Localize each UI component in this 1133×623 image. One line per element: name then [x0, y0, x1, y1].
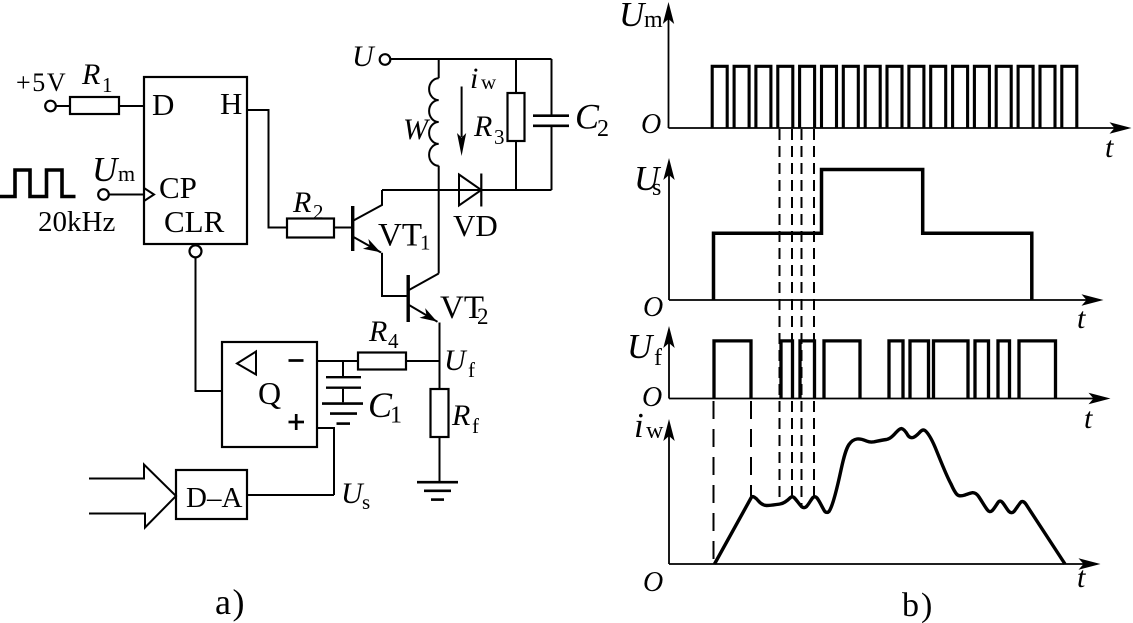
svg-text:b): b) [902, 587, 934, 623]
svg-text:t: t [1084, 402, 1093, 435]
svg-text:f: f [654, 345, 662, 371]
svg-text:R: R [451, 399, 470, 432]
svg-text:w: w [481, 70, 497, 94]
svg-text:W: W [403, 113, 431, 146]
svg-text:R: R [473, 110, 492, 143]
svg-text:i: i [634, 406, 644, 445]
svg-text:m: m [118, 161, 135, 186]
svg-text:t: t [1077, 302, 1086, 335]
svg-text:s: s [362, 490, 370, 514]
svg-text:D: D [152, 87, 174, 122]
svg-text:H: H [220, 86, 242, 121]
svg-text:CLR: CLR [164, 204, 225, 239]
svg-text:1: 1 [102, 73, 113, 97]
svg-text:VT: VT [378, 218, 422, 254]
svg-text:U: U [352, 40, 376, 73]
svg-text:i: i [470, 62, 478, 95]
svg-text:3: 3 [494, 125, 505, 149]
svg-text:m: m [644, 7, 663, 33]
svg-text:20kHz: 20kHz [38, 206, 115, 238]
svg-text:f: f [468, 358, 475, 382]
svg-text:t: t [1105, 131, 1114, 164]
svg-text:2: 2 [597, 116, 609, 142]
svg-text:s: s [652, 175, 661, 201]
svg-text:4: 4 [388, 329, 399, 353]
svg-text:CP: CP [159, 170, 197, 205]
svg-text:f: f [472, 414, 479, 438]
svg-text:1: 1 [390, 403, 402, 429]
svg-text:a): a) [215, 582, 246, 622]
svg-text:O: O [642, 382, 662, 413]
svg-text:Q: Q [258, 375, 281, 411]
svg-text:O: O [643, 292, 663, 323]
svg-text:t: t [1077, 561, 1086, 594]
svg-text:VD: VD [453, 208, 498, 243]
svg-text:O: O [643, 567, 663, 598]
svg-text:2: 2 [477, 304, 489, 329]
svg-text:R: R [81, 58, 100, 91]
svg-text:U: U [444, 344, 468, 377]
svg-text:D–A: D–A [186, 482, 242, 514]
svg-text:R: R [368, 315, 387, 348]
svg-text:1: 1 [420, 231, 431, 255]
svg-text:2: 2 [313, 200, 324, 224]
svg-text:U: U [627, 327, 655, 366]
svg-text:U: U [92, 150, 120, 189]
svg-text:+5V: +5V [16, 68, 67, 97]
svg-text:O: O [641, 109, 661, 140]
svg-text:R: R [292, 186, 311, 219]
svg-text:U: U [619, 0, 647, 34]
svg-text:w: w [646, 418, 664, 444]
